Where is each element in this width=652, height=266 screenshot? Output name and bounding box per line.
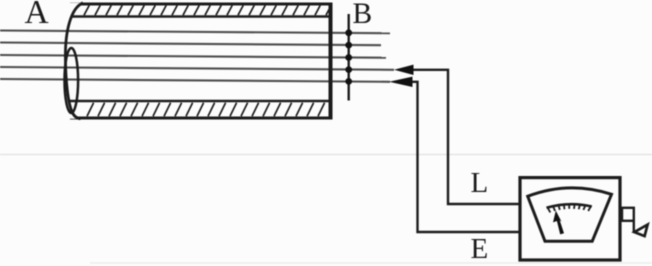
svg-text:B: B (353, 0, 373, 30)
svg-text:E: E (471, 233, 489, 265)
svg-text:L: L (471, 167, 489, 199)
svg-text:A: A (25, 0, 49, 31)
